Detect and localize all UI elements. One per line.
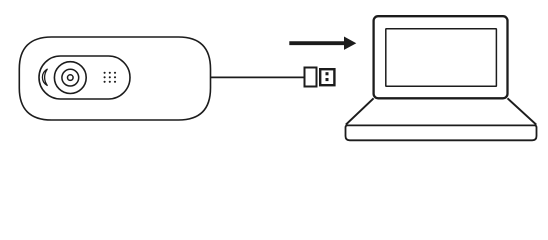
- lens center: [68, 75, 74, 81]
- usb contact hole bottom: [326, 78, 329, 81]
- usb contact hole top: [326, 72, 329, 75]
- direction arrow: [289, 37, 356, 50]
- lens outer ring: [54, 62, 86, 94]
- laptop base bottom bar: [346, 125, 537, 140]
- usb cable: [211, 76, 305, 78]
- webcam body outer shell: [19, 37, 210, 120]
- laptop base right slant: [508, 98, 537, 124]
- laptop screen inner display: [386, 29, 497, 86]
- lens middle ring: [62, 69, 79, 86]
- usb plug metal shell: [320, 69, 334, 85]
- laptop base left slant: [346, 98, 374, 124]
- indicator light crescent: [42, 69, 47, 85]
- microphone dot grid: [104, 72, 117, 83]
- usb plug body: [305, 68, 317, 87]
- laptop screen outer frame: [374, 16, 508, 98]
- webcam front panel: [39, 56, 130, 99]
